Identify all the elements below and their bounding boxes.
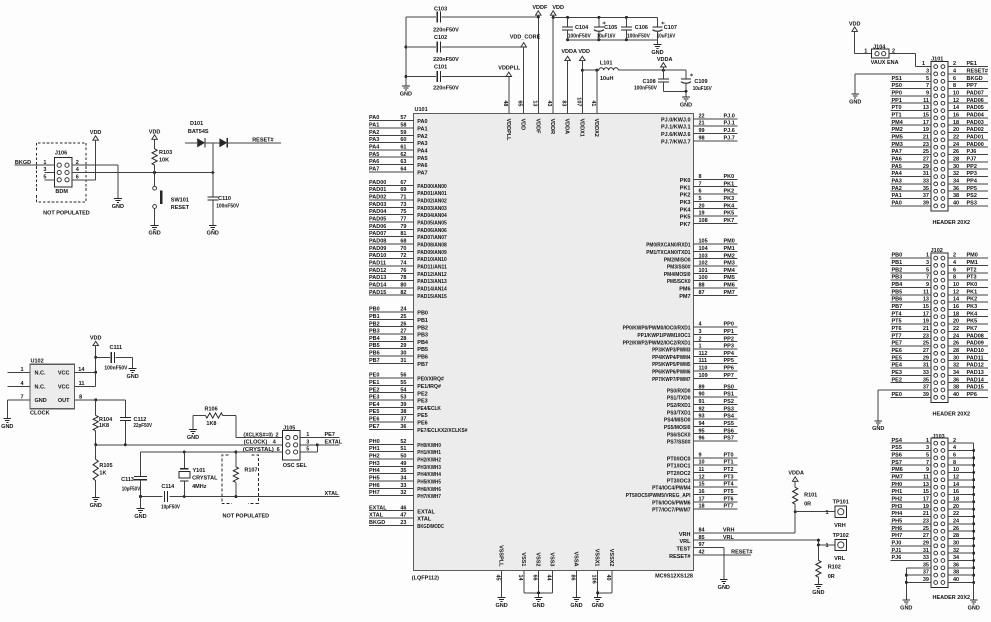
- wire U101 pin 21 PJ.1: [661, 121, 738, 131]
- wire VDDX2 pin 41 up: [596, 70, 598, 113]
- svg-text:40: 40: [953, 201, 959, 207]
- svg-text:CLOCK: CLOCK: [30, 411, 50, 417]
- wire J103 pin 14: [948, 482, 974, 488]
- wire J106 pin 3 stub: [44, 172, 54, 174]
- svg-text:PT0: PT0: [892, 105, 902, 111]
- svg-text:PH3: PH3: [369, 461, 380, 467]
- svg-text:NOT POPULATED: NOT POPULATED: [43, 210, 90, 216]
- svg-text:17: 17: [699, 496, 705, 502]
- svg-text:18: 18: [953, 120, 959, 126]
- svg-text:PAD02/AN02: PAD02/AN02: [417, 199, 447, 205]
- svg-text:PAD01: PAD01: [967, 135, 984, 141]
- wire U101 pin 17 PT6: [652, 496, 738, 506]
- svg-text:PP3/KWP3/PWM3: PP3/KWP3/PWM3: [652, 348, 690, 354]
- svg-text:TP102: TP102: [833, 533, 849, 539]
- svg-text:VDDF: VDDF: [534, 119, 540, 135]
- svg-text:C101: C101: [434, 65, 447, 71]
- svg-text:PS7: PS7: [892, 460, 902, 466]
- wire J104 pin2 to J101 pin1: [889, 54, 931, 68]
- svg-text:PT7/IOC7/PWM7: PT7/IOC7/PWM7: [652, 508, 690, 514]
- svg-text:PK4: PK4: [724, 203, 736, 209]
- svg-text:22pF50V: 22pF50V: [134, 423, 153, 429]
- svg-text:23: 23: [923, 333, 929, 339]
- svg-text:21: 21: [923, 135, 929, 141]
- svg-text:PM6: PM6: [724, 283, 735, 289]
- svg-text:PH1/KWH1: PH1/KWH1: [417, 450, 441, 456]
- svg-text:PAD06/AN06: PAD06/AN06: [417, 228, 447, 234]
- svg-text:R104: R104: [99, 417, 113, 423]
- power VDDA arrow to pin 83: [561, 49, 577, 113]
- svg-text:107: 107: [575, 97, 581, 106]
- svg-text:PAD00: PAD00: [369, 180, 386, 186]
- ground C110: [207, 225, 219, 236]
- svg-text:14: 14: [517, 575, 523, 582]
- wire J101 pin 32 PP3: [948, 171, 988, 177]
- svg-text:10uF16V: 10uF16V: [693, 86, 712, 92]
- svg-text:PS6/SCK0: PS6/SCK0: [667, 432, 691, 438]
- wire J101 pin 36 PP5: [948, 186, 988, 192]
- svg-text:13: 13: [923, 297, 929, 303]
- ground at TEST pin: [718, 580, 730, 591]
- svg-text:PM4/MOSI0: PM4/MOSI0: [664, 272, 691, 278]
- wire J103 pin 17 PH2: [890, 496, 931, 502]
- svg-text:21: 21: [923, 511, 929, 517]
- capacitor C113: [121, 452, 147, 497]
- resistor R102 0R: [816, 560, 841, 584]
- wire J102 pin 5 PB2: [890, 267, 931, 273]
- svg-text:7: 7: [926, 83, 929, 89]
- svg-text:23: 23: [923, 518, 929, 524]
- svg-text:PJ.6: PJ.6: [724, 128, 735, 134]
- svg-text:PB7: PB7: [892, 304, 903, 310]
- power VDD_CORE arrow: [510, 34, 541, 47]
- svg-text:PAD05: PAD05: [967, 105, 984, 111]
- svg-text:RESET#: RESET#: [967, 69, 988, 75]
- svg-text:10pF50V: 10pF50V: [161, 505, 180, 511]
- svg-text:PT7: PT7: [892, 333, 902, 339]
- svg-text:PA1: PA1: [417, 127, 427, 133]
- connector J103 header 20x2: [931, 434, 970, 601]
- svg-text:PAD11: PAD11: [967, 355, 984, 361]
- wire L101 to VDDA node: [618, 69, 686, 72]
- svg-text:PA0: PA0: [892, 201, 902, 207]
- svg-text:14: 14: [953, 297, 960, 303]
- wire U101 pin 98 PJ.7: [661, 135, 738, 145]
- svg-text:2: 2: [953, 253, 956, 259]
- wire J101 pin 14 PAD05: [948, 105, 988, 111]
- svg-text:32: 32: [953, 171, 959, 177]
- wire VSSX2 pin 40: [605, 549, 614, 593]
- svg-text:1K8: 1K8: [206, 421, 216, 427]
- svg-text:PE5: PE5: [417, 413, 427, 419]
- svg-text:BKGD: BKGD: [369, 520, 385, 526]
- svg-text:GND: GND: [207, 231, 219, 237]
- svg-text:VSSX2: VSSX2: [608, 549, 614, 567]
- wire J101 pin 33 PA3: [890, 179, 931, 185]
- wire U101 pin 96 PS7: [667, 436, 738, 446]
- wire J102 pin 11 PB5: [890, 289, 931, 295]
- svg-text:100nF50V: 100nF50V: [627, 33, 650, 39]
- wire J102 pin 15 PB7: [890, 304, 931, 310]
- wire U102 pin 11: [75, 372, 96, 387]
- svg-text:36: 36: [400, 424, 406, 430]
- svg-text:37: 37: [923, 193, 929, 199]
- wire U101 pin 63 PA6: [369, 159, 428, 169]
- svg-text:14: 14: [78, 367, 85, 373]
- svg-text:VSSA: VSSA: [573, 552, 579, 567]
- svg-text:PJ0: PJ0: [892, 540, 902, 546]
- node BKGD wire: [15, 160, 55, 166]
- wire U101 pin 78 PAD13: [369, 275, 447, 285]
- svg-text:112: 112: [699, 351, 708, 357]
- wire J105 pin 1 PE7: [300, 432, 339, 438]
- svg-text:39: 39: [923, 577, 929, 583]
- wire VSS tie: [524, 591, 553, 597]
- R107 not populated bracket: [222, 455, 269, 520]
- svg-text:PP1: PP1: [724, 329, 734, 335]
- node XTAL label: [325, 491, 340, 497]
- svg-text:BKGD/MODC: BKGD/MODC: [417, 524, 444, 530]
- svg-text:GND: GND: [592, 603, 604, 609]
- svg-text:8: 8: [953, 83, 956, 89]
- wire J101 pin 19 PM2: [890, 127, 931, 133]
- svg-text:PT4: PT4: [892, 311, 903, 317]
- wire U101 pin 85 VRL net: [680, 535, 819, 545]
- wire J101 pin 31 PA4: [890, 171, 931, 177]
- svg-text:J104: J104: [873, 44, 886, 50]
- svg-text:GND: GND: [900, 605, 912, 611]
- svg-text:PAD08: PAD08: [967, 333, 984, 339]
- svg-text:PAD02: PAD02: [967, 127, 984, 133]
- svg-text:94: 94: [699, 421, 706, 427]
- connector J106 BDM header: [43, 151, 79, 195]
- svg-text:VDDX1: VDDX1: [578, 119, 584, 137]
- svg-text:XTAL: XTAL: [417, 517, 432, 523]
- svg-text:PK2: PK2: [724, 189, 735, 195]
- svg-text:PA2: PA2: [892, 186, 902, 192]
- svg-text:61: 61: [400, 145, 406, 151]
- svg-text:U101: U101: [415, 107, 428, 113]
- svg-text:PE4: PE4: [892, 363, 903, 369]
- svg-text:31: 31: [400, 358, 406, 364]
- svg-text:PAD14/AN14: PAD14/AN14: [417, 287, 447, 293]
- wire J102 pin 16 PK3: [948, 304, 988, 310]
- svg-text:VDD: VDD: [849, 21, 861, 27]
- svg-text:(CLOCK): (CLOCK): [244, 440, 268, 446]
- wire J103 pin 31 PJ1: [890, 548, 931, 554]
- svg-text:SW101: SW101: [171, 197, 189, 203]
- svg-text:26: 26: [953, 149, 959, 155]
- wire U101 pin 110 PP6: [652, 366, 738, 376]
- wire U101 pin 57 PA0: [369, 115, 428, 125]
- svg-text:PM0: PM0: [967, 253, 978, 259]
- svg-text:49: 49: [400, 461, 406, 467]
- wire XTAL net: [139, 495, 340, 498]
- wire J103 pin 23 PH5: [890, 518, 931, 524]
- svg-text:PP2/KWP2/PWM2/IOC2/RXD1: PP2/KWP2/PWM2/IOC2/RXD1: [623, 340, 691, 346]
- wire J103 pin 12: [948, 474, 974, 480]
- svg-text:PP1/KWP1/PWM1/IOC1: PP1/KWP1/PWM1/IOC1: [637, 333, 690, 339]
- wire U101 pin 58 PA1: [369, 123, 428, 133]
- svg-text:VRH: VRH: [679, 532, 691, 538]
- svg-text:54: 54: [400, 387, 407, 393]
- wire J101 pin 24 PAD00: [948, 142, 988, 148]
- svg-text:PM5/SCK0: PM5/SCK0: [667, 279, 691, 285]
- svg-text:PAD05: PAD05: [369, 217, 386, 223]
- svg-text:13: 13: [531, 100, 537, 106]
- svg-text:PT2: PT2: [967, 267, 977, 273]
- svg-text:85: 85: [699, 535, 705, 541]
- ground VSSPLL: [495, 598, 507, 609]
- svg-text:65: 65: [517, 100, 523, 106]
- svg-text:GND: GND: [1, 424, 13, 430]
- wire J103 pin 40: [948, 577, 974, 583]
- svg-text:10pF50V: 10pF50V: [122, 486, 141, 492]
- svg-text:29: 29: [923, 355, 929, 361]
- wire U101 pin 104 PM1: [646, 246, 737, 256]
- svg-text:C113: C113: [121, 477, 134, 483]
- svg-text:PAD04/AN04: PAD04/AN04: [417, 213, 447, 219]
- resistor R104 1K8: [93, 400, 113, 445]
- svg-text:90: 90: [699, 392, 705, 398]
- svg-text:31: 31: [923, 171, 929, 177]
- svg-text:29: 29: [923, 164, 929, 170]
- svg-text:PAD13: PAD13: [967, 370, 984, 376]
- svg-text:PE3: PE3: [417, 399, 427, 405]
- wire bypass bank top rail: [553, 16, 657, 19]
- svg-text:35: 35: [400, 468, 406, 474]
- wire J102 pin 18 PK4: [948, 311, 988, 317]
- wire J101 pin 27 PA6: [890, 157, 931, 163]
- wire J106 pin 6 to VDD: [72, 179, 96, 181]
- svg-text:5: 5: [926, 453, 929, 459]
- svg-text:VAUX ENA: VAUX ENA: [871, 60, 899, 66]
- wire U101 pin 20 PK4: [680, 203, 738, 213]
- power VDD arrow at J106: [90, 130, 102, 180]
- svg-text:PM1: PM1: [724, 246, 735, 252]
- wire J101 pin 20 PAD02: [948, 127, 988, 133]
- svg-text:PB4: PB4: [369, 336, 381, 342]
- capacitor C105: [594, 17, 617, 39]
- svg-text:PS5: PS5: [724, 421, 734, 427]
- svg-text:26: 26: [953, 526, 959, 532]
- svg-text:10: 10: [953, 282, 959, 288]
- svg-text:PH0: PH0: [892, 482, 903, 488]
- svg-text:9: 9: [926, 91, 929, 97]
- svg-text:PJ.1/KWJ.1: PJ.1/KWJ.1: [661, 125, 691, 131]
- connector J105 OSC SEL: [283, 425, 308, 469]
- svg-text:38: 38: [953, 570, 959, 576]
- svg-text:PE6: PE6: [417, 421, 427, 427]
- svg-text:110: 110: [699, 366, 708, 372]
- svg-text:GND: GND: [680, 102, 692, 108]
- svg-text:C110: C110: [218, 196, 231, 202]
- svg-text:GND: GND: [872, 426, 884, 432]
- svg-text:PE7/ECLKX2/XCLKS#: PE7/ECLKX2/XCLKS#: [417, 428, 467, 434]
- svg-text:21: 21: [699, 121, 705, 127]
- svg-text:PP6: PP6: [724, 366, 734, 372]
- ground at J102 pin37: [872, 421, 884, 432]
- svg-text:PM7: PM7: [679, 294, 690, 300]
- svg-text:PB0: PB0: [417, 311, 428, 317]
- wire U101 pin 68 PAD08: [369, 239, 447, 249]
- ground C111: [126, 369, 138, 380]
- wire J102 pin 36 PAD14: [948, 377, 988, 383]
- svg-text:PM2: PM2: [724, 253, 735, 259]
- svg-text:C102: C102: [434, 35, 447, 41]
- svg-text:PB4: PB4: [417, 340, 429, 346]
- svg-text:PA2: PA2: [369, 130, 379, 136]
- wire J102 pin 10 PK0: [948, 282, 988, 288]
- wire U102 pin 4: [7, 381, 30, 387]
- svg-text:68: 68: [400, 239, 406, 245]
- wire bank ground stem: [657, 40, 659, 45]
- svg-text:PK0: PK0: [680, 178, 691, 184]
- svg-text:PT3: PT3: [724, 474, 734, 480]
- svg-text:PAD06: PAD06: [369, 224, 386, 230]
- svg-text:19: 19: [923, 127, 929, 133]
- svg-text:28: 28: [953, 157, 959, 163]
- svg-text:RESET#: RESET#: [731, 549, 752, 555]
- svg-text:33: 33: [400, 483, 406, 489]
- wire J101 pin 40 PS3: [948, 201, 988, 207]
- svg-text:GND: GND: [90, 503, 102, 509]
- wire U101 pin 105 PM0: [646, 239, 737, 249]
- svg-text:PB6: PB6: [417, 355, 428, 361]
- svg-text:PT4: PT4: [724, 482, 735, 488]
- svg-text:39: 39: [923, 201, 929, 207]
- power VDD arrow at R103: [149, 129, 161, 139]
- svg-text:PE5: PE5: [892, 355, 902, 361]
- wire J102 pin 40 PP6: [948, 392, 988, 398]
- wire U101 pin 50 PH2: [369, 454, 441, 464]
- svg-text:PJ.1: PJ.1: [724, 121, 735, 127]
- svg-text:39: 39: [923, 392, 929, 398]
- svg-text:9: 9: [926, 282, 929, 288]
- svg-text:HEADER 20X2: HEADER 20X2: [933, 412, 971, 418]
- wire U101 pin 101 PM4: [664, 268, 738, 278]
- svg-text:J103: J103: [933, 434, 945, 440]
- svg-text:PP0: PP0: [892, 91, 902, 97]
- test point TP102 VRL: [818, 533, 848, 562]
- wire J102 pin 22 PK7: [948, 326, 988, 332]
- svg-text:27: 27: [400, 329, 406, 335]
- svg-text:15: 15: [923, 113, 929, 119]
- svg-text:PAD14: PAD14: [369, 283, 387, 289]
- svg-text:VDDA: VDDA: [564, 119, 570, 135]
- wire J102 pin 26 PAD09: [948, 341, 988, 347]
- svg-text:PS6: PS6: [724, 428, 734, 434]
- resistor R101 0R: [793, 481, 818, 533]
- svg-text:37: 37: [923, 385, 929, 391]
- wire J101 pin3 to ground: [855, 69, 931, 95]
- svg-text:12: 12: [699, 474, 705, 480]
- svg-text:VDDA: VDDA: [657, 57, 673, 63]
- wire U101 pin 70 PAD09: [369, 246, 447, 256]
- svg-text:PP4: PP4: [724, 351, 735, 357]
- svg-text:PJ1: PJ1: [892, 548, 902, 554]
- svg-text:PK3: PK3: [967, 304, 978, 310]
- connector J106 BDM dashed outline: [36, 143, 89, 217]
- svg-text:VSS2: VSS2: [535, 552, 541, 566]
- ground R105: [90, 498, 102, 509]
- svg-text:PP2: PP2: [967, 164, 977, 170]
- svg-text:80: 80: [400, 283, 406, 289]
- svg-text:VSSPLL: VSSPLL: [498, 545, 504, 567]
- svg-text:VDD: VDD: [552, 5, 564, 11]
- svg-text:16: 16: [953, 304, 959, 310]
- power VDDPLL arrow: [498, 66, 521, 77]
- svg-text:PM5: PM5: [724, 275, 735, 281]
- svg-text:VCC: VCC: [58, 371, 70, 377]
- wire J102 pin 13 PB6: [890, 297, 931, 303]
- wire J103 pin 34: [948, 555, 974, 561]
- svg-text:C114: C114: [161, 484, 175, 490]
- wire J101 pin 18 PAD03: [948, 120, 988, 126]
- svg-text:13: 13: [923, 482, 929, 488]
- wire U101 pin 35 PH4: [369, 468, 442, 478]
- wire U101 pin 90 PS1: [667, 392, 738, 402]
- resistor R105 1K: [93, 445, 112, 498]
- svg-text:C105: C105: [604, 25, 617, 31]
- svg-text:PB6: PB6: [892, 297, 903, 303]
- svg-text:PH3/KWH3: PH3/KWH3: [417, 465, 441, 471]
- wire J101 pin 35 PA2: [890, 186, 931, 192]
- pin 107 VDDX1 top stub: [575, 97, 584, 137]
- wire U101 pin 22 PJ.0: [661, 113, 738, 123]
- svg-text:PE4/ECLK: PE4/ECLK: [417, 406, 441, 412]
- wire J103 pin 20: [948, 504, 974, 510]
- svg-text:PH6: PH6: [892, 526, 903, 532]
- svg-text:PE2: PE2: [369, 387, 379, 393]
- svg-text:PAD12: PAD12: [369, 268, 386, 274]
- wire U101 pin 72 PAD10: [369, 253, 447, 263]
- capacitor C107: [653, 17, 677, 39]
- wire U101 pin 31 PB7: [369, 358, 428, 368]
- svg-text:PE0/XIRQ#: PE0/XIRQ#: [417, 377, 444, 383]
- capacitor C112: [120, 400, 152, 445]
- svg-text:220nF50V: 220nF50V: [433, 86, 459, 92]
- svg-text:PAD10: PAD10: [369, 253, 386, 259]
- wire J101 pin 11 PP1: [890, 98, 931, 104]
- svg-text:PE5: PE5: [369, 409, 379, 415]
- svg-text:10: 10: [953, 467, 959, 473]
- svg-text:22: 22: [953, 135, 959, 141]
- svg-text:38: 38: [400, 409, 406, 415]
- svg-text:PAD09/AN09: PAD09/AN09: [417, 250, 447, 256]
- wire J101 pin 16 PAD04: [948, 113, 988, 119]
- svg-text:46: 46: [400, 505, 406, 511]
- svg-text:12: 12: [953, 98, 959, 104]
- wire U101 pin 27 PB3: [369, 329, 428, 339]
- svg-text:R101: R101: [804, 493, 817, 499]
- svg-text:36: 36: [953, 186, 959, 192]
- svg-text:42: 42: [699, 549, 705, 555]
- wire J102 pin 2 PM0: [948, 253, 988, 259]
- svg-text:18: 18: [953, 496, 959, 502]
- svg-text:32: 32: [953, 548, 959, 554]
- ground VSS1-3: [532, 598, 544, 609]
- svg-text:PT0: PT0: [724, 452, 734, 458]
- wire U101 pin 102 PM3: [667, 261, 738, 271]
- svg-text:PJ.6/KWJ.6: PJ.6/KWJ.6: [661, 132, 691, 138]
- power VDDA arrow at C108: [657, 57, 673, 70]
- svg-text:PA1: PA1: [369, 123, 379, 129]
- wire U101 pin 93 PS4: [664, 414, 738, 424]
- svg-text:15: 15: [699, 482, 705, 488]
- wire U101 pin 51 PH1: [369, 446, 441, 456]
- wire U101 pin 80 PAD14: [369, 283, 448, 293]
